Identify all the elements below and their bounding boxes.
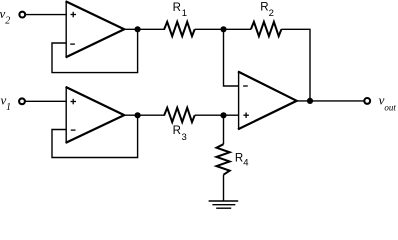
node output junction	[307, 98, 313, 104]
node B (non-inverting input node)	[220, 112, 226, 118]
ground	[209, 201, 239, 208]
op-amp U1	[66, 1, 125, 58]
svg-text:R: R	[173, 2, 181, 14]
label R4	[235, 152, 249, 168]
wire node A down to U3 inverting input	[224, 29, 239, 86]
svg-text:3: 3	[182, 132, 187, 143]
svg-text:R: R	[173, 125, 181, 137]
node U1 output junction	[135, 26, 141, 32]
wire U1 output to R1	[123, 28, 165, 30]
output terminal vout	[364, 98, 370, 104]
wire R3 to U3 + input through node B	[195, 114, 239, 116]
label v1	[1, 92, 12, 113]
op-amp U3	[238, 71, 297, 130]
wire v1 to U2 + input	[25, 100, 66, 102]
wire U1 feedback (output to inverting input)	[52, 29, 138, 72]
wire R4 to ground	[223, 175, 225, 201]
svg-text:out: out	[384, 103, 396, 113]
wire R2 to output node	[281, 29, 310, 101]
resistor R3	[164, 108, 195, 122]
input terminal v1	[19, 98, 25, 104]
input terminal v2	[19, 12, 25, 18]
wire v2 to U1 + input	[26, 14, 67, 16]
wire R1 to R2 through node A	[195, 28, 251, 30]
label R2	[260, 2, 274, 19]
label R1	[173, 2, 187, 19]
node A (inverting input summing node)	[220, 26, 226, 32]
wire U2 feedback (output to inverting input)	[52, 115, 138, 157]
svg-text:1: 1	[182, 8, 187, 19]
wire node B down to R4	[223, 115, 225, 144]
resistor R4	[217, 144, 230, 175]
wire U2 output to R3	[123, 114, 165, 116]
resistor R1	[164, 22, 195, 36]
svg-text:R: R	[260, 2, 268, 14]
wire U3 output to terminal	[296, 100, 365, 102]
resistor R2	[251, 22, 282, 36]
svg-text:R: R	[235, 152, 243, 164]
node U2 output junction	[135, 112, 141, 118]
svg-text:4: 4	[243, 158, 248, 169]
svg-text:2: 2	[269, 8, 274, 19]
svg-text:2: 2	[5, 16, 10, 27]
label v2	[0, 6, 10, 27]
svg-text:1: 1	[6, 102, 11, 113]
op-amp U2	[66, 87, 125, 144]
label vout	[379, 92, 397, 112]
label R3	[173, 125, 187, 143]
